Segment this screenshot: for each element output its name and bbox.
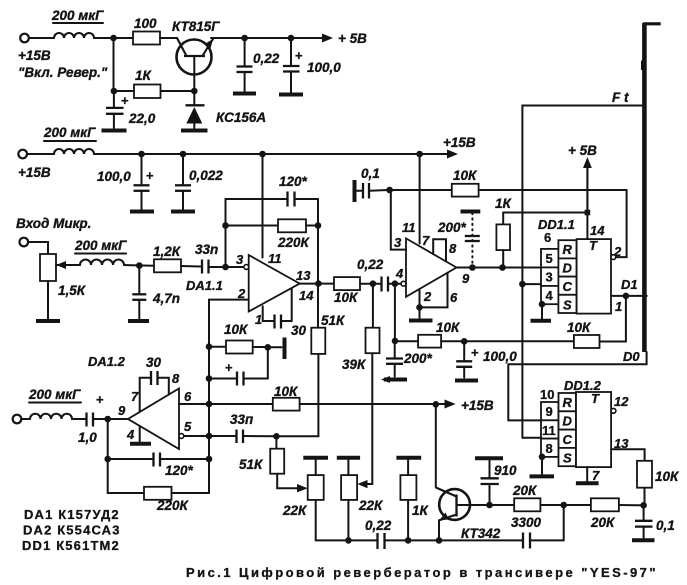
svg-text:C: C [563, 279, 573, 294]
svg-text:7: 7 [422, 233, 430, 248]
svg-text:51К: 51К [321, 313, 346, 328]
svg-text:22К: 22К [282, 503, 308, 518]
feedback vertical left [225, 199, 227, 267]
op-amp DA2 [394, 220, 470, 305]
arrow +5B [568, 143, 597, 239]
svg-text:4: 4 [126, 427, 135, 442]
node [222, 264, 229, 271]
pin1 D1 wire [611, 277, 647, 299]
feedback vertical right [317, 199, 319, 328]
capacitor 30 pins 7-8 [140, 355, 169, 412]
capacitor 100,0 el rail [97, 154, 154, 210]
C input wire DD1.1 [522, 283, 541, 285]
svg-text:4: 4 [395, 266, 404, 281]
svg-text:+: + [295, 48, 303, 63]
capacitor 0,22 [237, 38, 280, 92]
svg-text:120*: 120* [165, 463, 194, 478]
svg-text:1К: 1К [412, 503, 430, 518]
svg-text:5: 5 [546, 251, 553, 266]
svg-text:51К: 51К [239, 457, 264, 472]
node [110, 35, 117, 42]
svg-text:12: 12 [614, 394, 629, 409]
node [416, 151, 423, 158]
node [370, 280, 377, 287]
resistor 1,2K [153, 244, 182, 272]
pin7 ground [576, 467, 599, 483]
node [206, 433, 213, 440]
svg-text:S: S [563, 451, 572, 466]
capacitor 0,1 no2 [635, 505, 675, 538]
svg-text:+15В: +15В [461, 398, 494, 413]
svg-text:DA1 К157УД2: DA1 К157УД2 [24, 507, 120, 522]
svg-text:1: 1 [255, 312, 262, 327]
svg-text:200 мкГ: 200 мкГ [28, 387, 81, 402]
rail wire [385, 539, 522, 541]
node [241, 35, 248, 42]
node [136, 262, 143, 269]
svg-text:7: 7 [131, 389, 139, 404]
wire [300, 403, 449, 405]
trimmer 200* no2 [386, 341, 433, 377]
zener VD1 KS156A [186, 91, 267, 128]
capacitor el + [209, 347, 268, 385]
pin2 wire [209, 300, 249, 404]
svg-text:100: 100 [134, 16, 157, 31]
svg-text:C: C [563, 432, 573, 447]
capacitor 120* no2 [108, 453, 209, 479]
resistor 10K bias [273, 384, 300, 411]
wire [360, 283, 381, 285]
pin2 bubble + loop [611, 190, 627, 260]
svg-text:+: + [121, 93, 129, 108]
svg-text:1,2К: 1,2К [153, 244, 182, 259]
resistor 100 [133, 16, 160, 45]
capacitor 4,7n [132, 266, 180, 319]
wire [29, 37, 54, 39]
D0 line [508, 349, 646, 420]
svg-text:R: R [563, 242, 573, 257]
node [111, 88, 118, 95]
node [265, 344, 272, 351]
Ft line [522, 90, 642, 438]
node [259, 151, 266, 158]
svg-text:3: 3 [394, 235, 402, 250]
pin11 wire [262, 154, 264, 258]
trimmer 200* [437, 212, 480, 266]
flip-flop DD1.2 [540, 378, 629, 483]
svg-text:+ 5В: + 5В [338, 31, 367, 46]
terminal X1 [20, 34, 29, 43]
svg-text:200*: 200* [403, 351, 433, 366]
svg-text:6: 6 [544, 230, 551, 245]
wire [114, 90, 134, 92]
terminal X2 [18, 150, 27, 159]
svg-text:10: 10 [540, 387, 554, 402]
svg-text:100,0: 100,0 [307, 60, 341, 75]
wire base [471, 504, 514, 506]
svg-text:+: + [96, 392, 104, 407]
svg-text:DA1.2: DA1.2 [88, 354, 126, 369]
node [222, 222, 229, 229]
resistor 10K [209, 322, 268, 354]
inductor L4 200mkG [21, 387, 81, 419]
svg-text:100,0: 100,0 [97, 169, 131, 184]
svg-text:КТ815Г: КТ815Г [172, 19, 220, 34]
ground with arrow [381, 376, 407, 383]
node [560, 502, 567, 509]
svg-text:2: 2 [423, 289, 432, 304]
node [138, 151, 145, 158]
wire [389, 283, 402, 285]
svg-text:10К: 10К [453, 168, 478, 183]
output wire [300, 283, 334, 285]
svg-text:10К: 10К [274, 384, 299, 399]
left feedback vertical [107, 419, 109, 493]
svg-text:+15В: +15В [443, 135, 476, 150]
wire [160, 37, 177, 39]
resistor 10K right [637, 461, 680, 506]
node [104, 416, 111, 423]
node [206, 456, 213, 463]
inductor L2 200mkG [43, 125, 96, 154]
svg-text:1К: 1К [135, 68, 153, 83]
svg-text:DD1 К561ТМ2: DD1 К561ТМ2 [22, 538, 120, 553]
arrow +5B [322, 34, 333, 43]
svg-text:Т: Т [589, 238, 598, 253]
capacitor 22,0 el [106, 91, 156, 128]
svg-text:3: 3 [236, 252, 244, 267]
svg-text:0,22: 0,22 [365, 518, 392, 533]
svg-text:D: D [563, 261, 573, 276]
inductor L3 200mkG [74, 238, 127, 265]
terminal X3 [20, 238, 29, 247]
wire [181, 265, 201, 268]
pin3 wire [390, 190, 406, 250]
arrow +15B [447, 150, 458, 159]
ground [181, 129, 208, 133]
resistor 20K no2 [590, 498, 619, 530]
svg-text:КС156А: КС156А [216, 110, 266, 125]
svg-text:D1: D1 [621, 277, 638, 292]
wire [69, 264, 80, 266]
svg-text:30: 30 [146, 355, 162, 370]
transistor VT1 KT815G [172, 19, 220, 91]
node [640, 502, 647, 509]
wire [540, 504, 591, 506]
potentiometer 1,5K [40, 254, 87, 319]
resistor 51K no2 [239, 436, 308, 492]
node [519, 281, 526, 288]
capacitor 120* [226, 174, 319, 207]
output wire DA2 [457, 267, 542, 269]
node [206, 343, 213, 350]
resistor 10K upper [390, 168, 627, 197]
svg-text:10К: 10К [224, 322, 249, 337]
node [436, 537, 443, 544]
capacitor 910 [475, 458, 517, 505]
svg-text:0,22: 0,22 [253, 51, 280, 66]
svg-text:1: 1 [615, 299, 622, 314]
ground [36, 319, 60, 323]
node [386, 187, 393, 194]
10K divider line [395, 320, 626, 348]
capacitor 0,22 no2 [365, 518, 392, 549]
rail wire [316, 539, 377, 541]
potentiometer 22K no2 [337, 458, 384, 541]
svg-text:8: 8 [449, 241, 457, 256]
ground [130, 210, 154, 214]
wire [28, 242, 48, 254]
resistor 1K no2 [396, 458, 429, 541]
svg-text:20К: 20К [590, 515, 616, 530]
svg-text:8: 8 [546, 441, 553, 456]
node [469, 264, 476, 271]
svg-text:6: 6 [450, 290, 458, 305]
svg-text:0,022: 0,022 [189, 168, 223, 183]
op-amp DA1.1 [186, 251, 314, 327]
node [315, 222, 322, 229]
svg-text:Вход Микр.: Вход Микр. [16, 216, 91, 231]
svg-text:14: 14 [590, 223, 605, 238]
resistor 1K [495, 196, 513, 268]
inductor L1 200mkG [51, 8, 104, 38]
ground [279, 93, 303, 97]
node [433, 401, 440, 408]
potentiometer 22K no1 [282, 458, 328, 541]
svg-text:КТ342: КТ342 [461, 526, 501, 541]
svg-text:30: 30 [291, 323, 307, 338]
op-amp DA1.2 [88, 354, 192, 449]
wire [209, 266, 245, 268]
svg-text:39К: 39К [342, 357, 367, 372]
transistor VT2 KT342 [437, 488, 501, 541]
collector wire to +15V [436, 404, 437, 488]
svg-text:11: 11 [268, 251, 282, 266]
pin4 ground [130, 426, 151, 444]
resistor 1K [134, 68, 161, 98]
svg-text:+ 5В: + 5В [568, 143, 597, 158]
svg-text:3: 3 [546, 270, 553, 285]
svg-text:6: 6 [184, 389, 192, 404]
node [486, 502, 493, 509]
S,R ground DD1.2 [530, 454, 555, 477]
pin12 bubble [611, 408, 616, 413]
ground [102, 129, 127, 133]
svg-text:14: 14 [299, 288, 314, 303]
svg-text:Рис.1 Цифровой ревербератор в: Рис.1 Цифровой ревербератор в трансивере… [186, 565, 658, 580]
svg-text:1,0: 1,0 [78, 430, 97, 445]
node [392, 280, 399, 287]
mid bias rail [209, 403, 273, 405]
svg-text:9: 9 [118, 403, 126, 418]
svg-text:0,1: 0,1 [361, 166, 380, 181]
capacitor 30 pins1-14 [263, 288, 307, 338]
capacitor 100,0 el [283, 38, 341, 93]
svg-text:22К: 22К [358, 498, 384, 513]
side ground bar [268, 338, 285, 360]
capacitor 33n [195, 242, 218, 274]
ground [632, 538, 655, 542]
svg-text:S: S [563, 298, 572, 313]
wire 51K1 bottom [276, 435, 318, 437]
svg-text:"Вкл. Ревер.": "Вкл. Ревер." [18, 65, 108, 80]
svg-text:4: 4 [546, 288, 554, 303]
capacitor 0,022 [175, 154, 223, 210]
resistor 39K [342, 284, 380, 484]
node [180, 151, 187, 158]
pin6 output wire [179, 403, 209, 405]
pin11 wire [419, 154, 421, 244]
svg-text:200 мкГ: 200 мкГ [43, 125, 96, 140]
capacitor 0,22 [357, 257, 388, 292]
svg-text:DA2 К554СА3: DA2 К554СА3 [23, 523, 121, 538]
svg-text:+15В: +15В [18, 48, 51, 63]
svg-text:1,5К: 1,5К [58, 283, 87, 298]
svg-text:200 мкГ: 200 мкГ [51, 8, 104, 23]
svg-text:+15В: +15В [18, 165, 51, 180]
pin7-8 notch [433, 239, 446, 261]
svg-text:5: 5 [184, 419, 192, 434]
svg-text:13: 13 [296, 268, 311, 283]
resistor 51K [311, 313, 346, 436]
pin4 vertical [394, 284, 396, 341]
svg-text:8: 8 [172, 371, 180, 386]
svg-text:9: 9 [546, 404, 553, 419]
svg-text:220К: 220К [277, 235, 311, 250]
capacitor 1,0 el [72, 392, 108, 445]
node [104, 456, 111, 463]
svg-text:11: 11 [542, 423, 556, 438]
node [206, 401, 213, 408]
pin5 wire [184, 435, 236, 437]
capacitor 0,1 [355, 166, 390, 202]
ground [409, 319, 433, 323]
svg-text:10К: 10К [334, 290, 359, 305]
svg-text:DA1.1: DA1.1 [186, 278, 223, 293]
svg-text:10К: 10К [436, 320, 461, 335]
node [315, 280, 322, 287]
wire 1K top to +5B node [503, 212, 587, 214]
wire [211, 37, 329, 39]
svg-text:+: + [471, 345, 479, 360]
bus thick line [641, 23, 661, 352]
svg-text:D0: D0 [623, 349, 640, 364]
right vertical x209 lower [208, 404, 210, 493]
node [392, 338, 399, 345]
node [345, 537, 352, 544]
svg-text:1К: 1К [495, 196, 513, 211]
wire [619, 504, 644, 506]
wire [161, 90, 195, 92]
svg-text:D: D [563, 414, 573, 429]
svg-text:R: R [563, 395, 573, 410]
svg-text:3300: 3300 [511, 515, 542, 530]
svg-text:120*: 120* [279, 174, 308, 189]
svg-text:F t: F t [612, 90, 629, 105]
svg-text:+: + [146, 168, 154, 183]
svg-text:20К: 20К [512, 483, 538, 498]
ground [233, 92, 256, 96]
svg-text:22,0: 22,0 [128, 111, 156, 126]
node [206, 375, 213, 382]
svg-text:10К: 10К [567, 320, 592, 335]
flip-flop DD1.1 [538, 217, 622, 314]
svg-text:0,22: 0,22 [357, 257, 384, 272]
capacitor 33p [230, 412, 276, 443]
svg-text:200*: 200* [437, 220, 467, 235]
svg-text:910: 910 [494, 463, 517, 478]
wire [108, 418, 128, 420]
svg-text:100,0: 100,0 [483, 349, 517, 364]
svg-text:33n: 33n [195, 242, 218, 257]
node [461, 338, 468, 345]
svg-text:Т: Т [591, 391, 600, 406]
node [191, 88, 198, 95]
resistor 20K no1 [512, 483, 540, 511]
pins 2,6 ground [416, 273, 447, 318]
node [405, 537, 412, 544]
D1 bus corner [625, 296, 627, 342]
pin13 wire [611, 449, 645, 461]
wire base branch [113, 38, 115, 91]
node [288, 35, 295, 42]
svg-text:9: 9 [462, 271, 470, 286]
node [499, 264, 506, 271]
svg-text:10К: 10К [655, 469, 680, 484]
terminal X4 [13, 415, 22, 424]
svg-text:4,7n: 4,7n [152, 291, 180, 306]
ground [171, 210, 195, 214]
svg-text:33п: 33п [230, 412, 254, 427]
resistor 10K out [334, 277, 360, 305]
resistor 220K no2 [108, 487, 209, 513]
svg-text:11: 11 [402, 220, 416, 235]
svg-text:+: + [225, 360, 233, 375]
parts list [22, 507, 121, 553]
wire rail [27, 153, 54, 155]
svg-text:200 мкГ: 200 мкГ [74, 238, 127, 253]
R,S ground DD1.1 [531, 301, 552, 321]
svg-text:220К: 220К [156, 498, 190, 513]
resistor 220K [226, 219, 319, 250]
capacitor 100,0 el no3 [456, 341, 517, 377]
ground [455, 379, 478, 383]
capacitor 3300 [511, 515, 542, 549]
rail wire [531, 505, 564, 540]
node [273, 433, 280, 440]
wire [94, 37, 133, 39]
svg-text:0,1: 0,1 [656, 518, 675, 533]
svg-text:7: 7 [592, 468, 600, 483]
ground [128, 319, 149, 323]
arrow +15B mid [445, 400, 456, 409]
